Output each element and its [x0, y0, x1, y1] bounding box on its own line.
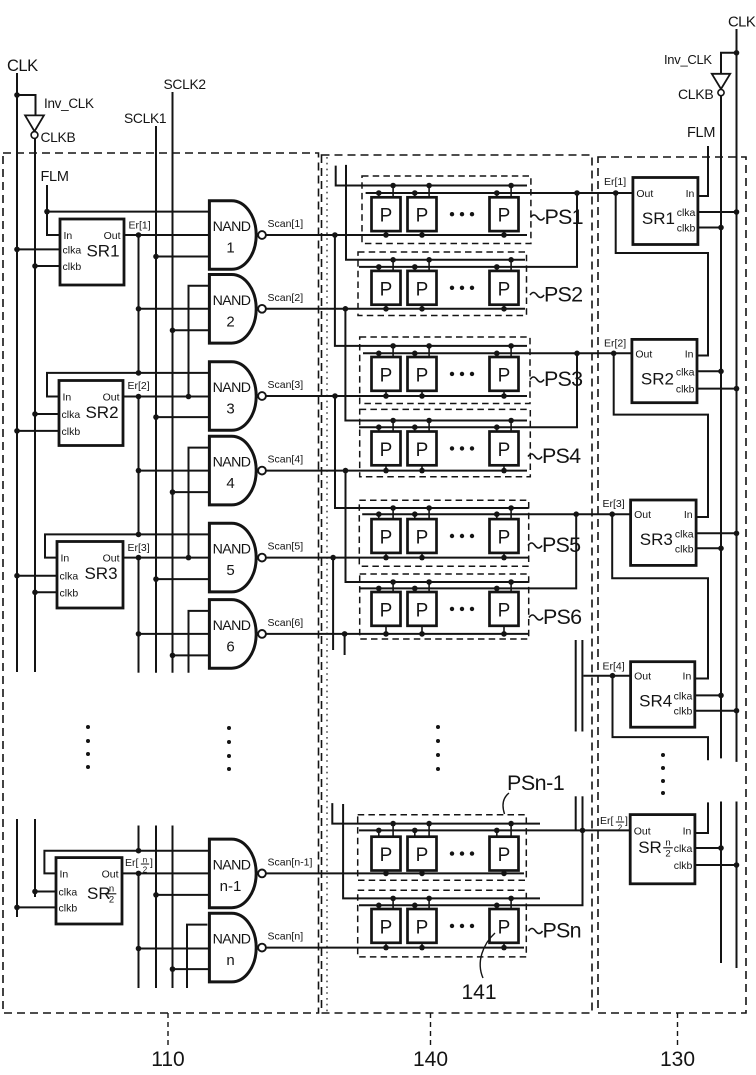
dashed boundary box of emission stage section 130 — [598, 157, 746, 1013]
svg-text:NAND: NAND — [213, 455, 251, 471]
ellipsis dots in PS5 — [450, 534, 454, 538]
wire input loop to SRn2 left — [44, 851, 209, 874]
svg-text:P: P — [498, 845, 511, 866]
svg-text:NAND: NAND — [213, 219, 251, 235]
wire Scan[n] row — [266, 947, 524, 949]
svg-text:P: P — [498, 600, 511, 621]
svg-text:SCLK2: SCLK2 — [164, 77, 206, 92]
svg-text:NAND: NAND — [213, 857, 251, 873]
wire SR2 right clka input — [697, 370, 721, 372]
svg-text:SCLK1: SCLK1 — [124, 111, 166, 126]
NAND gate NAND 1 — [209, 201, 256, 270]
wire SR1 right clkb input — [698, 227, 721, 229]
svg-text:Er[1]: Er[1] — [129, 220, 151, 232]
pixel P 3 of PS4 — [490, 432, 519, 466]
pixel P 1 of PSn-1 — [372, 837, 401, 871]
svg-text:PS1: PS1 — [545, 205, 583, 229]
wire SR1 clka input — [17, 248, 60, 250]
svg-text:In: In — [63, 392, 72, 404]
shift register SR3 left: box — [57, 542, 123, 609]
junction Er[1] branch down — [574, 190, 580, 196]
wire rail A feed PS3 from Scan[1] — [335, 235, 527, 346]
svg-text:In: In — [685, 348, 694, 360]
pixel P 2 of PS6 — [408, 592, 437, 626]
svg-text:Scan[n]: Scan[n] — [268, 931, 304, 943]
junction Er[2] on chain column — [136, 394, 142, 400]
pixel group PS5 dashed box — [359, 500, 528, 566]
reference tick for 130 — [677, 1013, 679, 1045]
junction NAND4 mid tap — [136, 468, 142, 474]
wire Scan[1] row — [266, 234, 527, 236]
svg-text:P: P — [498, 440, 511, 461]
pixel P 3 of PS6 — [490, 592, 519, 626]
svg-text:P: P — [498, 206, 511, 227]
vertical ellipsis dots — [661, 753, 665, 757]
wire CLKB rail right — [720, 96, 722, 759]
wire CLK rail right — [736, 29, 738, 762]
ellipsis dots in PS2 — [450, 286, 454, 290]
svg-text:n-1: n-1 — [220, 878, 242, 895]
ellipsis dots in PS3 — [450, 372, 454, 376]
junction NAND6 mid tap — [136, 631, 142, 637]
junction Er[n/2] branch down — [580, 828, 586, 834]
shift register SR3 right: box — [631, 500, 697, 565]
svg-text:Inv_CLK: Inv_CLK — [664, 52, 712, 67]
svg-text:In: In — [683, 825, 692, 837]
svg-text:In: In — [60, 868, 69, 880]
pixel P 3 of PS3 — [490, 357, 519, 391]
wire Er output row of SRn2 left — [122, 872, 209, 874]
svg-text:clka: clka — [63, 244, 82, 256]
svg-text:Out: Out — [634, 825, 651, 837]
wire Er[1] branch to PS2 rail B — [359, 193, 577, 267]
wire SRn/2 In riser — [695, 802, 708, 833]
svg-text:clka: clka — [676, 366, 695, 378]
shift register SR2 right: box — [632, 339, 697, 402]
wire SR2 clkb input — [17, 430, 59, 432]
wire rail A feed stub PS1 — [336, 166, 527, 186]
reference tick for 140 — [430, 1013, 432, 1045]
junction FLM branch — [44, 209, 50, 215]
wire SRn2 right clkb input — [695, 864, 737, 866]
pixel P 2 of PSn-1 — [408, 837, 437, 871]
wire SR2 Out to SR3 In chain — [614, 353, 708, 517]
svg-text:PS6: PS6 — [543, 605, 582, 629]
svg-text:2: 2 — [143, 866, 148, 875]
junction chain on loop row 2 — [136, 848, 142, 854]
shift register SR4 right: box — [631, 662, 695, 728]
svg-text:clkb: clkb — [60, 587, 79, 599]
wire CLK to inverter input left — [17, 95, 36, 115]
svg-text:clkb: clkb — [674, 860, 693, 872]
wire NAND2 clock input from SCLK — [173, 329, 210, 331]
svg-text:]: ] — [150, 857, 153, 869]
svg-text:clka: clka — [674, 843, 693, 855]
wire SR1 Out to SR2 In chain — [616, 193, 708, 356]
svg-text:PS3: PS3 — [544, 367, 583, 391]
svg-text:Scan[5]: Scan[5] — [268, 541, 304, 553]
svg-text:clkb: clkb — [677, 223, 696, 235]
wire NAND8 clock input from SCLK — [173, 968, 210, 970]
wire NAND6 top input branch stub — [189, 611, 210, 673]
wire NANDn middle input — [139, 948, 210, 950]
label PSn with tilde — [529, 929, 543, 934]
wire NAND1 clock input from SCLK — [156, 256, 209, 258]
junction chain on loop row 0 — [136, 370, 142, 376]
svg-text:clka: clka — [62, 409, 81, 421]
svg-text:FLM: FLM — [687, 125, 715, 141]
ellipsis dots in PS1 — [450, 212, 454, 216]
svg-text:NAND: NAND — [213, 293, 251, 309]
wire SR2 right clkb input — [697, 388, 737, 390]
pixel P 1 of PS3 — [372, 357, 401, 391]
junction Er[3] chain drop — [609, 511, 615, 517]
svg-text:P: P — [416, 917, 429, 938]
wire SR4 right clkb input — [695, 710, 737, 712]
svg-text:6: 6 — [226, 638, 234, 655]
pixel group PSn dashed box — [358, 890, 527, 957]
vertical ellipsis dots — [436, 725, 440, 729]
wire dangling Er branch column lower — [575, 796, 577, 830]
svg-text:clkb: clkb — [59, 902, 78, 914]
svg-text:NAND: NAND — [213, 618, 251, 634]
wire Er output row of SR3 left — [123, 557, 209, 559]
wire NAND4 middle input — [139, 470, 210, 472]
wire SR3 right clkb input — [696, 547, 721, 549]
wire NAND7 clock input from SCLK — [156, 894, 209, 896]
pixel P 2 of PS1 — [408, 197, 437, 231]
wire FLM to NAND1 and SR1 In — [47, 185, 60, 235]
wire Er[2] branch to PS4 rail B — [359, 353, 577, 427]
label PS2 with tilde — [530, 293, 544, 298]
label PS4 with tilde — [528, 454, 542, 459]
wire Er chain column segment 5 — [138, 873, 140, 988]
wire Er chain column segment 1 — [138, 235, 140, 373]
svg-text:SR1: SR1 — [86, 242, 119, 261]
wire NAND5 clock input from SCLK — [156, 578, 209, 580]
svg-text:Scan[1]: Scan[1] — [268, 218, 304, 230]
svg-text:SR3: SR3 — [84, 564, 117, 583]
shift register SRn2 left: box — [56, 858, 122, 924]
svg-text:Scan[2]: Scan[2] — [268, 292, 304, 304]
wire Er[n/2] branch to PSn rail B — [582, 796, 584, 830]
wire Er[3] row to PS5 rail B — [362, 513, 630, 515]
wire CLK to inverter input right — [721, 53, 737, 74]
wire NAND3 clock input from SCLK — [156, 416, 209, 418]
junction Er[4] on chain column — [136, 871, 142, 877]
wire NANDn top input branch stub — [187, 925, 207, 988]
svg-text:Er[4]: Er[4] — [603, 661, 625, 673]
pixel P 3 of PS5 — [490, 519, 519, 553]
junction Er[2] chain drop — [611, 351, 617, 357]
wire NAND4 clock input from SCLK — [173, 491, 210, 493]
svg-text:2: 2 — [226, 313, 234, 330]
junction Er[3] on chain column — [136, 555, 142, 561]
pixel P 2 of PSn — [408, 909, 437, 943]
pixel group PS6 dashed box — [360, 574, 529, 639]
svg-text:4: 4 — [226, 475, 234, 492]
svg-text:P: P — [380, 600, 393, 621]
wire dangling tap from Scan[5] — [332, 558, 334, 650]
svg-text:P: P — [380, 206, 393, 227]
wire rail A feed stub PSn-1 — [332, 803, 540, 824]
svg-text:P: P — [416, 845, 429, 866]
svg-text:n: n — [618, 814, 622, 823]
svg-text:Out: Out — [634, 671, 651, 683]
svg-text:P: P — [380, 440, 393, 461]
svg-text:SR4: SR4 — [639, 692, 672, 711]
dashed boundary box of scan stage section 110 — [3, 153, 319, 1013]
svg-text:FLM: FLM — [41, 169, 69, 185]
svg-text:SR: SR — [638, 838, 662, 857]
svg-text:clka: clka — [677, 207, 696, 219]
svg-text:Scan[6]: Scan[6] — [268, 617, 304, 629]
svg-text:P: P — [498, 365, 511, 386]
vertical ellipsis dots — [227, 726, 231, 730]
svg-text:P: P — [416, 279, 429, 300]
vertical ellipsis dots — [86, 725, 90, 729]
wire SRn2 right clka input — [695, 847, 721, 849]
svg-text:1: 1 — [226, 240, 234, 257]
wire rail A feed PS6 from Scan[4] — [346, 471, 529, 582]
wire Er[2] row to PS3 rail B — [363, 352, 632, 354]
wire Scan[3] row — [266, 395, 527, 397]
junction Er[4] chain drop — [610, 673, 616, 679]
svg-text:PS4: PS4 — [542, 444, 581, 468]
pixel P 1 of PS5 — [372, 519, 401, 553]
pixel P 3 of PS2 — [490, 271, 519, 305]
svg-text:P: P — [498, 279, 511, 300]
svg-text:CLK: CLK — [728, 15, 756, 31]
wire FLM right to SR1 In — [698, 146, 708, 196]
svg-text:Out: Out — [634, 509, 651, 521]
wire NAND6 clock input from SCLK — [173, 654, 210, 656]
NAND gate NAND 2 — [209, 275, 256, 344]
svg-text:140: 140 — [413, 1048, 448, 1071]
wire dangling Er branch columns upper — [575, 640, 577, 732]
svg-text:110: 110 — [151, 1048, 184, 1071]
pixel P 3 of PS1 — [490, 197, 519, 231]
svg-text:NAND: NAND — [213, 542, 251, 558]
wire Er chain column segment 4 — [138, 826, 140, 851]
shift register SRn2 right: box — [630, 815, 695, 884]
svg-text:n: n — [665, 838, 670, 849]
ellipsis dots in PS6 — [450, 607, 454, 611]
label PS3 with tilde — [530, 377, 544, 382]
svg-text:In: In — [686, 188, 695, 200]
svg-text:3: 3 — [226, 401, 234, 418]
svg-text:Out: Out — [103, 553, 120, 565]
svg-text:P: P — [380, 365, 393, 386]
svg-text:P: P — [498, 917, 511, 938]
svg-text:2: 2 — [665, 849, 670, 860]
svg-text:Out: Out — [103, 392, 120, 404]
svg-text:clkb: clkb — [674, 706, 693, 718]
svg-text:clkb: clkb — [62, 426, 81, 438]
wire Er output row of SR2 left — [123, 396, 209, 398]
wire rail A feed stub PS2 — [346, 165, 525, 260]
svg-text:]: ] — [625, 815, 628, 827]
svg-text:Er[2]: Er[2] — [604, 338, 626, 350]
svg-text:5: 5 — [226, 562, 234, 579]
svg-text:CLKB: CLKB — [41, 130, 76, 145]
NAND gate NAND n-1 — [209, 839, 256, 908]
pixel group PS2 dashed box — [358, 252, 527, 316]
svg-text:2: 2 — [618, 824, 623, 833]
wire Scan[n-1] row — [266, 872, 524, 874]
junction CLK to inverter right — [734, 50, 740, 56]
svg-text:In: In — [684, 509, 693, 521]
svg-text:SR2: SR2 — [641, 369, 674, 388]
pixel P 2 of PS2 — [408, 271, 437, 305]
wire rail A feed PS5 from Scan[3] — [335, 396, 529, 508]
svg-text:P: P — [380, 917, 393, 938]
svg-text:P: P — [416, 440, 429, 461]
svg-text:P: P — [380, 279, 393, 300]
inverter left — [25, 115, 44, 131]
shift register SR1 right: box — [633, 178, 698, 245]
wire SR3 clka input — [17, 575, 57, 577]
reference tick for 110 — [167, 1013, 169, 1045]
wire NAND2 top input branch from Er[2] — [189, 286, 210, 397]
wire SCLK2 rail — [172, 92, 174, 673]
wire dangling tap from Scan[6] — [344, 634, 346, 655]
junction Er[3] branch down — [573, 511, 579, 517]
wire Scan[4] row — [266, 470, 527, 472]
svg-text:SR3: SR3 — [640, 530, 673, 549]
svg-text:PSn-1: PSn-1 — [507, 771, 564, 795]
svg-text:n: n — [109, 884, 114, 895]
svg-text:Scan[3]: Scan[3] — [268, 379, 304, 391]
pixel group PS3 dashed box — [360, 337, 530, 404]
junction chain on loop row 1 — [136, 532, 142, 538]
junction Er[1] chain drop — [613, 190, 619, 196]
svg-text:P: P — [380, 528, 393, 549]
pixel P 2 of PS4 — [408, 432, 437, 466]
svg-text:In: In — [683, 671, 692, 683]
label PS5 with tilde — [528, 543, 542, 548]
svg-text:2: 2 — [109, 895, 114, 906]
wire input loop to SR3 left — [45, 534, 209, 557]
svg-text:n: n — [143, 856, 147, 865]
leader line from 141 to pixel P — [480, 933, 495, 978]
pixel group PS4 dashed box — [360, 409, 531, 476]
wire SR3 clkb input — [35, 591, 57, 593]
svg-text:Scan[n-1]: Scan[n-1] — [268, 856, 313, 868]
wire SR3 right clka input — [696, 532, 736, 534]
svg-text:Out: Out — [635, 348, 652, 360]
svg-text:n: n — [226, 952, 234, 969]
svg-text:P: P — [416, 528, 429, 549]
svg-text:PS2: PS2 — [544, 283, 582, 307]
svg-text:Er[3]: Er[3] — [128, 542, 150, 554]
wire SR4 right clka input — [695, 694, 721, 696]
wire SR4 Out chain stub — [613, 676, 709, 761]
svg-text:P: P — [416, 600, 429, 621]
svg-text:130: 130 — [660, 1048, 695, 1071]
pixel group PS1 dashed box — [362, 176, 531, 244]
wire SR1 right clka input — [698, 211, 737, 213]
junction Er[1] on chain column — [136, 232, 142, 238]
wire SR1 clkb input — [35, 265, 60, 267]
svg-text:clka: clka — [674, 690, 693, 702]
wire CLKB rail left — [34, 138, 36, 672]
svg-text:NAND: NAND — [213, 932, 251, 948]
wire Scan[5] row — [266, 557, 529, 559]
ellipsis dots in PSn-1 — [450, 851, 454, 855]
junction Er[2] branch down — [574, 351, 580, 357]
shift register SR2 left: box — [59, 381, 123, 446]
wire Er chain column segment 3 — [138, 558, 140, 673]
svg-text:clkb: clkb — [675, 543, 694, 555]
pixel P 3 of PSn-1 — [490, 837, 519, 871]
pixel P 1 of PS4 — [372, 432, 401, 466]
svg-text:PS5: PS5 — [542, 533, 581, 557]
svg-text:PSn: PSn — [543, 919, 581, 943]
wire SCLK1 rail — [155, 126, 157, 673]
wire SRn2 clka input — [35, 891, 56, 893]
wire Er chain column segment 2 — [138, 397, 140, 535]
svg-text:SR1: SR1 — [642, 209, 675, 228]
svg-text:Er[3]: Er[3] — [603, 498, 625, 510]
svg-text:Out: Out — [104, 230, 121, 242]
wire Scan[6] row — [266, 633, 529, 635]
svg-text:P: P — [416, 206, 429, 227]
svg-text:Er[: Er[ — [600, 815, 614, 827]
svg-text:Er[1]: Er[1] — [604, 176, 626, 188]
wire rail A feed PS4 from Scan[2] — [345, 309, 527, 421]
svg-text:SR2: SR2 — [85, 403, 118, 422]
svg-text:CLKB: CLKB — [678, 86, 713, 102]
junction NANDn mid tap — [136, 946, 142, 952]
NAND gate NAND n — [209, 913, 256, 982]
junction CLK to inverter left — [14, 92, 20, 98]
svg-text:NAND: NAND — [213, 380, 251, 396]
wire rail A feed stub PSn — [343, 804, 540, 898]
svg-text:Out: Out — [102, 868, 119, 880]
svg-text:CLK: CLK — [7, 57, 38, 75]
ellipsis dots in PS4 — [450, 446, 454, 450]
inverter right — [712, 74, 730, 89]
svg-text:Scan[4]: Scan[4] — [268, 454, 304, 466]
svg-text:P: P — [380, 845, 393, 866]
dashed boundary box of pixel section 140 — [322, 155, 593, 1013]
junction NAND2 mid tap — [136, 306, 142, 312]
svg-text:Er[2]: Er[2] — [128, 380, 150, 392]
NAND gate NAND 6 — [209, 600, 256, 669]
wire Er[1] row to PS1 rail B — [366, 192, 633, 194]
wire NAND6 middle input — [139, 633, 210, 635]
pixel P 1 of PS1 — [372, 197, 401, 231]
label PS6 with tilde — [529, 615, 543, 620]
pixel P 1 of PSn — [372, 909, 401, 943]
wire SR3 Out to SR4 In chain — [612, 514, 708, 678]
wire SR2 clka input — [35, 413, 59, 415]
wire input loop to SR2 left — [47, 373, 209, 397]
svg-text:clka: clka — [59, 887, 78, 899]
wire Scan[2] row — [266, 308, 525, 310]
svg-text:clka: clka — [675, 528, 694, 540]
NAND gate NAND 4 — [209, 436, 256, 505]
wire Er[3] branch to PS6 rail B — [359, 514, 576, 588]
svg-text:Out: Out — [636, 188, 653, 200]
shift register SR1 left: box — [60, 219, 124, 285]
svg-text:clkb: clkb — [63, 261, 82, 273]
wire Er[n/2] row to PSn-1 rail B — [359, 829, 630, 831]
ellipsis dots in PSn — [450, 924, 454, 928]
svg-text:141: 141 — [461, 981, 496, 1004]
NAND gate NAND 5 — [209, 523, 256, 592]
